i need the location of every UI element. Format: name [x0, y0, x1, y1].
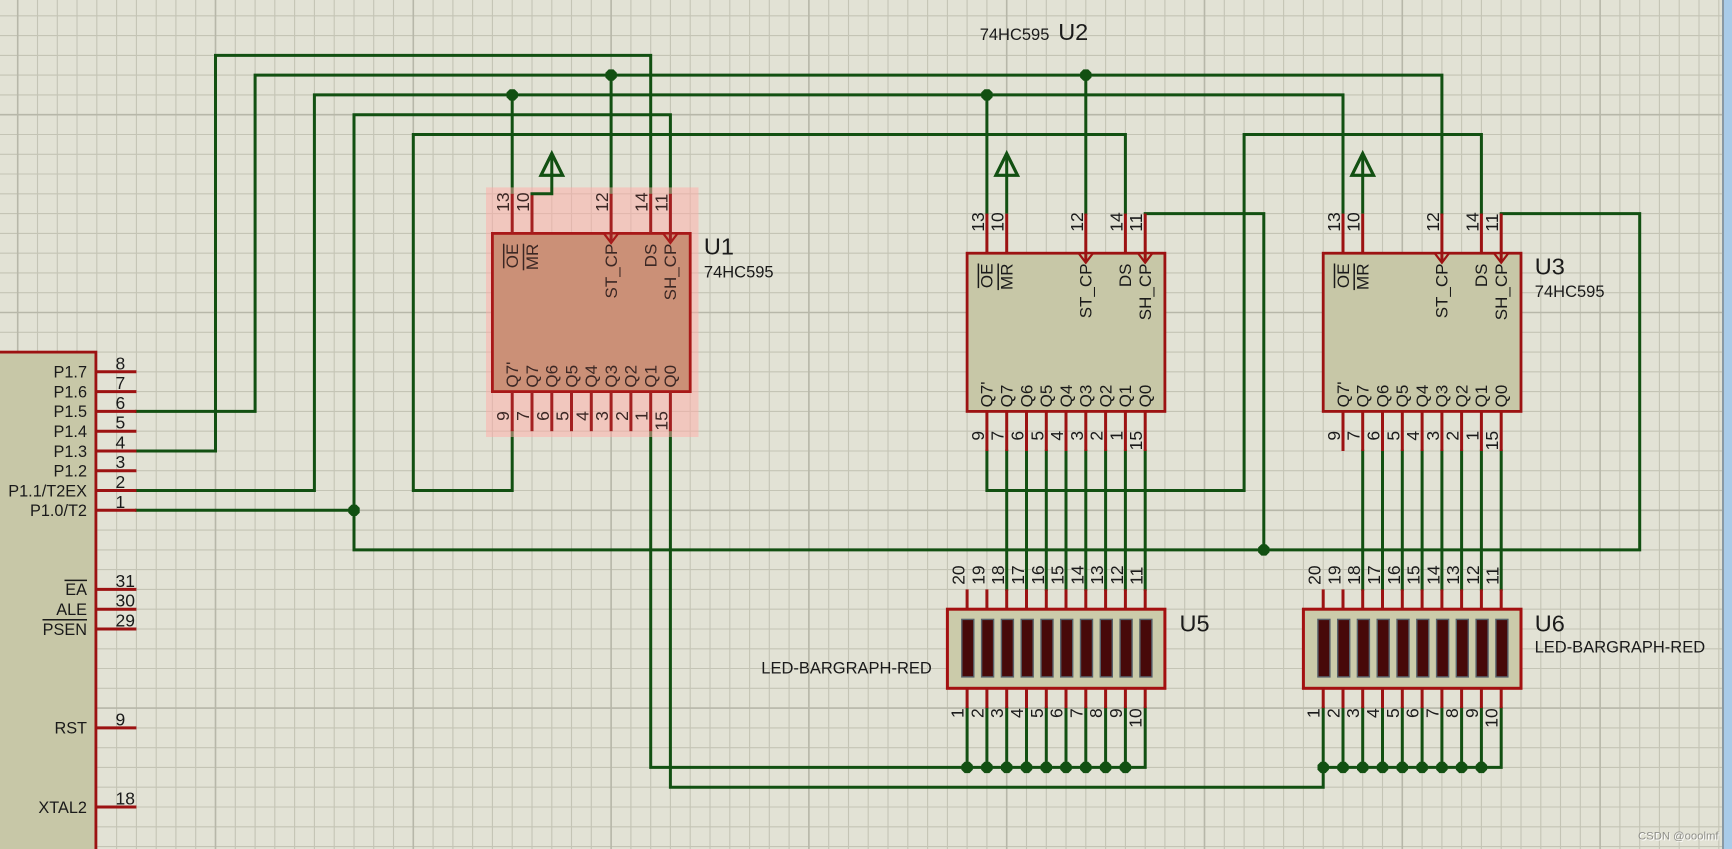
- U1 OE overbar: [503, 244, 505, 269]
- U6 LED segment 9: [1476, 619, 1488, 677]
- U2 clock notch SH_CP: [1138, 253, 1152, 263]
- svg-text:11: 11: [1126, 214, 1146, 232]
- svg-text:2: 2: [1443, 431, 1463, 441]
- svg-text:Q4: Q4: [1057, 385, 1076, 408]
- U1 clock notch ST_CP: [604, 233, 618, 243]
- U6 pin 8 stub (bottom): [1460, 688, 1463, 708]
- highlight overlay U1: [486, 187, 699, 437]
- window edge strip: [1722, 0, 1724, 849]
- wire branch SH_CP to U2 pin 11: [1145, 214, 1264, 550]
- svg-text:SH_CP: SH_CP: [661, 244, 680, 301]
- svg-text:1: 1: [116, 492, 126, 512]
- svg-text:14: 14: [632, 192, 652, 212]
- U6 pin 5 stub (bottom): [1401, 688, 1404, 708]
- U6 LED segment 4: [1377, 619, 1389, 677]
- svg-text:2: 2: [116, 472, 126, 492]
- svg-text:1: 1: [948, 708, 968, 718]
- U6 pin 16 stub (top): [1401, 589, 1404, 609]
- U6 pin 14 stub (top): [1440, 589, 1443, 609]
- U3 pin 7 stub: [1361, 411, 1364, 451]
- wire net P1.1 OE bus (to U3 pin 13): [136, 95, 1343, 491]
- svg-text:13: 13: [1324, 212, 1344, 231]
- junction U5 pin 4 bus: [1021, 762, 1032, 773]
- svg-text:MR: MR: [998, 264, 1017, 290]
- junction U6 pin 1 bus: [1318, 762, 1329, 773]
- U3 pin 15 stub: [1500, 411, 1503, 451]
- svg-text:11: 11: [1483, 567, 1503, 585]
- junction U6 pin 9 bus: [1476, 762, 1487, 773]
- wire U2 Q1 to U5 pin 12: [1124, 451, 1127, 589]
- svg-text:12: 12: [592, 192, 612, 211]
- svg-text:Q6: Q6: [1017, 385, 1036, 408]
- wire U3 Q7 to U6 pin 18: [1361, 451, 1364, 589]
- U2 pin 12 stub: [1084, 214, 1087, 263]
- U5 pin 12 stub (top): [1124, 589, 1127, 609]
- svg-text:7: 7: [513, 411, 533, 421]
- wire branch ST_CP to U1 pin 12: [610, 75, 613, 194]
- U5 LED segment 10: [1140, 619, 1152, 677]
- svg-text:12: 12: [1463, 565, 1483, 584]
- svg-text:EA: EA: [65, 581, 87, 599]
- wire U6 pin 4 to bus: [1381, 708, 1384, 767]
- MCU pin 1 P1.0/T2 stub: [96, 509, 136, 512]
- U6 pin 3 stub (bottom): [1361, 688, 1364, 708]
- svg-text:8: 8: [1086, 708, 1106, 718]
- wire U6 pin 5 to bus: [1401, 708, 1404, 767]
- U6 pin 20 stub (top): [1322, 589, 1325, 609]
- svg-text:16: 16: [1384, 565, 1404, 584]
- U1 pin 7 stub: [531, 392, 534, 432]
- PSEN overline: [43, 619, 88, 621]
- U5 pin 3 stub (bottom): [1005, 688, 1008, 708]
- U6 LED segment 3: [1357, 619, 1369, 677]
- U1 clock notch SH_CP: [663, 233, 677, 243]
- U5 LED segment 6: [1061, 619, 1073, 677]
- svg-text:29: 29: [116, 611, 135, 631]
- LED-BARGRAPH-RED U6 body: [1303, 609, 1521, 688]
- junction ST_CP / U1 pin 12: [605, 69, 616, 80]
- svg-text:6: 6: [116, 393, 126, 413]
- svg-text:8: 8: [116, 353, 126, 373]
- wire U6 pin 1 to bus: [1322, 708, 1325, 767]
- svg-text:U3: U3: [1535, 254, 1565, 280]
- U1 power arrow (VCC): [550, 155, 553, 175]
- U5 pin 9 stub (bottom): [1124, 688, 1127, 708]
- U6 LED segment 5: [1397, 619, 1409, 677]
- svg-text:11: 11: [651, 194, 671, 212]
- wire U5 pin 9 to bus: [1124, 708, 1127, 767]
- wire U2 Q2 to U5 pin 13: [1104, 451, 1107, 589]
- svg-text:OE: OE: [1334, 264, 1353, 289]
- svg-text:10: 10: [513, 192, 533, 212]
- U5 LED segment 2: [982, 619, 994, 677]
- U5 pin 15 stub (top): [1065, 589, 1068, 609]
- svg-text:5: 5: [116, 413, 126, 433]
- wire U6 pin 8 to bus: [1460, 708, 1463, 767]
- U3 pin 3 stub: [1440, 411, 1443, 451]
- svg-text:MR: MR: [523, 244, 542, 270]
- wire U5 pin 1 to bus: [966, 708, 969, 767]
- svg-text:20: 20: [1305, 565, 1325, 585]
- svg-text:Q4: Q4: [1413, 385, 1432, 408]
- svg-text:9: 9: [493, 411, 513, 421]
- 74HC595 U2 body: [967, 253, 1165, 411]
- svg-text:U1: U1: [704, 234, 734, 260]
- wire U5 pin 6 to bus: [1065, 708, 1068, 767]
- svg-text:7: 7: [988, 431, 1008, 441]
- svg-text:18: 18: [1344, 565, 1364, 584]
- svg-text:P1.7: P1.7: [54, 364, 88, 382]
- svg-text:6: 6: [1364, 431, 1384, 441]
- U2 pin 1 stub: [1124, 411, 1127, 451]
- svg-text:ST_CP: ST_CP: [602, 244, 621, 299]
- svg-text:13: 13: [968, 212, 988, 231]
- wire U5 pin 5 to bus: [1045, 708, 1048, 767]
- svg-text:10: 10: [988, 212, 1008, 232]
- svg-text:4: 4: [572, 411, 592, 421]
- svg-text:14: 14: [1462, 212, 1482, 232]
- svg-text:15: 15: [1482, 431, 1502, 450]
- MCU pin 6 P1.5 stub: [96, 410, 136, 413]
- svg-text:4: 4: [1047, 431, 1067, 441]
- wire U2 Q5 to U5 pin 16: [1045, 451, 1048, 589]
- 74HC595 U3 body: [1323, 253, 1521, 411]
- MCU pin 8 P1.7 stub: [96, 370, 136, 373]
- svg-text:Q2: Q2: [1452, 385, 1471, 408]
- U1 pin 5 stub: [570, 392, 573, 432]
- svg-text:Q0: Q0: [1492, 385, 1511, 408]
- wire U3 Q0 to U6 pin 11: [1500, 451, 1503, 589]
- U6 pin 19 stub (top): [1342, 589, 1345, 609]
- junction U6 pin 3 bus: [1357, 762, 1368, 773]
- svg-text:P1.5: P1.5: [54, 403, 88, 421]
- junction U6 pin 5 bus: [1397, 762, 1408, 773]
- U3 clock notch ST_CP: [1435, 253, 1449, 263]
- svg-text:1: 1: [632, 411, 652, 421]
- wire U3 Q2 to U6 pin 13: [1460, 451, 1463, 589]
- svg-text:MR: MR: [1354, 264, 1373, 290]
- svg-text:Q1: Q1: [1472, 385, 1491, 408]
- svg-text:2: 2: [1324, 708, 1344, 718]
- U3 pin 14 stub: [1480, 214, 1483, 254]
- U3 pin 10 stub: [1361, 214, 1364, 254]
- U5 LED segment 3: [1001, 619, 1013, 677]
- svg-text:Q0: Q0: [1136, 385, 1155, 408]
- svg-text:5: 5: [1383, 708, 1403, 718]
- svg-text:ALE: ALE: [56, 601, 87, 619]
- EA overline: [65, 579, 88, 581]
- U6 pin 1 stub (bottom): [1322, 688, 1325, 708]
- svg-text:4: 4: [116, 433, 126, 453]
- U2 pin 2 stub: [1104, 411, 1107, 451]
- U5 pin 19 stub (top): [985, 589, 988, 609]
- U6 pin 15 stub (top): [1421, 589, 1424, 609]
- U2 OE overbar: [977, 264, 979, 289]
- svg-text:P1.1/T2EX: P1.1/T2EX: [8, 482, 87, 500]
- wire chain U1 Q7' to U2 DS: [413, 135, 1125, 491]
- U2 pin 6 stub: [1025, 411, 1028, 451]
- wire branch OE to U2 pin 13: [985, 95, 988, 214]
- wire U6 pin 3 to bus: [1361, 708, 1364, 767]
- wire U5 pin 4 to bus: [1025, 708, 1028, 767]
- U1 power jog: [532, 175, 552, 194]
- svg-text:2: 2: [967, 708, 987, 718]
- wire U3 Q1 to U6 pin 12: [1480, 451, 1483, 589]
- wire branch ST_CP to U2 pin 12: [1084, 75, 1087, 214]
- svg-text:20: 20: [949, 565, 969, 585]
- svg-text:P1.2: P1.2: [54, 463, 88, 481]
- U6 pin 17 stub (top): [1381, 589, 1384, 609]
- svg-text:3: 3: [116, 452, 126, 472]
- U2 pin 4 stub: [1065, 411, 1068, 451]
- MCU pin 9 RST stub: [96, 726, 136, 729]
- wire U5 pin 2 to bus: [985, 708, 988, 767]
- svg-text:16: 16: [1028, 565, 1048, 584]
- U1 pin 9 stub: [511, 392, 514, 432]
- MCU pin 4 P1.3 stub: [96, 450, 136, 453]
- svg-text:3: 3: [1423, 431, 1443, 441]
- MCU pin 30 ALE stub: [96, 608, 136, 611]
- U1 pin 15 stub: [669, 392, 672, 432]
- U6 LED segment 7: [1437, 619, 1449, 677]
- U5 LED segment 8: [1100, 619, 1112, 677]
- svg-text:9: 9: [968, 431, 988, 441]
- U1 pin 14 stub: [649, 194, 652, 234]
- U2 pin 15 stub: [1144, 411, 1147, 451]
- svg-text:SH_CP: SH_CP: [1492, 264, 1511, 321]
- U1 pin 11 stub: [669, 194, 672, 243]
- svg-text:6: 6: [1047, 708, 1067, 718]
- U3 pin 12 stub: [1440, 214, 1443, 263]
- svg-text:Q3: Q3: [602, 365, 621, 388]
- wire U2 Q7 to U5 pin 18: [1005, 451, 1008, 589]
- MCU pin 5 P1.4 stub: [96, 430, 136, 433]
- U3 power arrow (VCC): [1361, 155, 1364, 214]
- wire U6 pin 7 to bus: [1440, 708, 1443, 767]
- U5 pin 14 stub (top): [1084, 589, 1087, 609]
- svg-text:31: 31: [116, 571, 135, 591]
- MCU body (8051, partial): [0, 352, 96, 849]
- svg-text:Q2: Q2: [1096, 385, 1115, 408]
- svg-text:15: 15: [1126, 431, 1146, 450]
- svg-text:OE: OE: [503, 244, 522, 269]
- svg-text:6: 6: [1403, 708, 1423, 718]
- svg-text:6: 6: [533, 411, 553, 421]
- MCU pin 2 P1.1/T2EX stub: [96, 489, 136, 492]
- U5 LED segment 4: [1021, 619, 1033, 677]
- svg-text:Q7: Q7: [523, 365, 542, 388]
- svg-text:P1.0/T2: P1.0/T2: [30, 502, 87, 520]
- junction U5 pin 7 bus: [1080, 762, 1091, 773]
- svg-text:5: 5: [1383, 431, 1403, 441]
- svg-text:LED-BARGRAPH-RED: LED-BARGRAPH-RED: [1535, 639, 1706, 657]
- junction U6 pin 4 bus: [1377, 762, 1388, 773]
- U1 pin 4 stub: [590, 392, 593, 432]
- svg-text:1: 1: [1106, 431, 1126, 441]
- U1 pin 2 stub: [629, 392, 632, 432]
- svg-text:SH_CP: SH_CP: [1136, 264, 1155, 321]
- U6 LED segment 10: [1496, 619, 1508, 677]
- junction U5 pin 2 bus: [981, 762, 992, 773]
- svg-text:2: 2: [1087, 431, 1107, 441]
- svg-text:13: 13: [1087, 565, 1107, 584]
- svg-text:7: 7: [1422, 708, 1442, 718]
- U3 pin 5 stub: [1401, 411, 1404, 451]
- U2 pin 13 stub: [985, 214, 988, 254]
- U6 pin 18 stub (top): [1361, 589, 1364, 609]
- junction U6 pin 8 bus: [1456, 762, 1467, 773]
- wire U2 Q6 to U5 pin 17: [1025, 451, 1028, 589]
- U3 pin 1 stub: [1480, 411, 1483, 451]
- svg-text:10: 10: [1126, 708, 1146, 728]
- svg-text:5: 5: [553, 411, 573, 421]
- junction U5 pin 1 bus: [961, 762, 972, 773]
- svg-text:XTAL2: XTAL2: [38, 799, 87, 817]
- wire U3 Q3 to U6 pin 14: [1440, 451, 1443, 589]
- svg-text:Q7': Q7': [1334, 381, 1353, 407]
- svg-text:19: 19: [1325, 565, 1345, 584]
- svg-text:OE: OE: [978, 264, 997, 289]
- MCU pin 18 XTAL2 stub: [96, 806, 136, 809]
- svg-text:Q5: Q5: [562, 365, 581, 388]
- svg-text:18: 18: [116, 789, 135, 809]
- svg-text:15: 15: [1404, 565, 1424, 584]
- U2 clock notch ST_CP: [1079, 253, 1093, 263]
- U6 pin 10 stub (bottom): [1500, 688, 1503, 708]
- U2 power arrow (VCC): [1005, 155, 1008, 214]
- U3 pin 2 stub: [1460, 411, 1463, 451]
- U3 OE overbar: [1334, 264, 1336, 289]
- MCU pin 29 PSEN stub: [96, 628, 136, 631]
- svg-text:4: 4: [1007, 708, 1027, 718]
- junction U5 pin 3 bus: [1001, 762, 1012, 773]
- svg-text:1: 1: [1304, 708, 1324, 718]
- U3 pin 4 stub: [1421, 411, 1424, 451]
- svg-text:19: 19: [968, 565, 988, 584]
- junction U6 pin 7 bus: [1436, 762, 1447, 773]
- junction OE / U2 pin 13: [981, 89, 992, 100]
- svg-text:10: 10: [1344, 212, 1364, 232]
- MCU pin 3 P1.2 stub: [96, 469, 136, 472]
- svg-text:4: 4: [1403, 431, 1423, 441]
- U5 pin 20 stub (top): [966, 589, 969, 609]
- svg-text:DS: DS: [1472, 264, 1491, 288]
- U5 pin 2 stub (bottom): [985, 688, 988, 708]
- svg-text:3: 3: [1343, 708, 1363, 718]
- wire net P1.3 to U1 DS (pin 14): [136, 55, 650, 451]
- svg-text:9: 9: [1106, 708, 1126, 718]
- svg-text:18: 18: [988, 565, 1008, 584]
- wire U3 Q5 to U6 pin 16: [1401, 451, 1404, 589]
- wire U2 Q3 to U5 pin 14: [1084, 451, 1087, 589]
- svg-text:P1.4: P1.4: [54, 423, 88, 441]
- MCU pin 7 P1.6 stub: [96, 390, 136, 393]
- U5 LED segment 7: [1081, 619, 1093, 677]
- U1 MR overbar: [523, 244, 525, 271]
- wire U1 Q1 to U5 cathode bus: [651, 431, 1145, 767]
- svg-text:Q1: Q1: [642, 365, 661, 388]
- U1 pin 13 stub: [511, 194, 514, 234]
- U5 pin 1 stub (bottom): [966, 688, 969, 708]
- svg-text:Q5: Q5: [1037, 385, 1056, 408]
- svg-text:74HC595: 74HC595: [1535, 283, 1605, 301]
- U2 pin 11 stub: [1144, 214, 1147, 263]
- U6 LED segment 1: [1318, 619, 1330, 677]
- svg-text:2: 2: [612, 411, 632, 421]
- svg-text:U2: U2: [1058, 19, 1088, 45]
- svg-text:74HC595: 74HC595: [704, 263, 774, 281]
- svg-text:Q3: Q3: [1433, 385, 1452, 408]
- svg-text:6: 6: [1008, 431, 1028, 441]
- LED-BARGRAPH-RED U5 body: [947, 609, 1165, 688]
- svg-text:P1.3: P1.3: [54, 443, 88, 461]
- U5 pin 5 stub (bottom): [1045, 688, 1048, 708]
- svg-text:7: 7: [1066, 708, 1086, 718]
- svg-text:3: 3: [987, 708, 1007, 718]
- svg-text:U6: U6: [1535, 611, 1565, 637]
- junction U6 pin 6 bus: [1416, 762, 1427, 773]
- U3 pin 6 stub: [1381, 411, 1384, 451]
- svg-text:13: 13: [1443, 565, 1463, 584]
- U5 pin 16 stub (top): [1045, 589, 1048, 609]
- U3 pin 9 stub: [1342, 411, 1345, 451]
- wire net P1.5 ST_CP bus (to U3 pin 12): [136, 75, 1442, 411]
- svg-text:30: 30: [116, 591, 136, 611]
- junction ST_CP / U2 pin 12: [1080, 69, 1091, 80]
- svg-text:Q2: Q2: [622, 365, 641, 388]
- U1 pin 3 stub: [610, 392, 613, 432]
- svg-text:LED-BARGRAPH-RED: LED-BARGRAPH-RED: [761, 660, 932, 678]
- U5 pin 7 stub (bottom): [1084, 688, 1087, 708]
- svg-text:9: 9: [116, 709, 126, 729]
- U2 pin 10 stub: [1005, 214, 1008, 254]
- U5 pin 18 stub (top): [1005, 589, 1008, 609]
- svg-text:DS: DS: [1116, 264, 1135, 288]
- svg-text:14: 14: [1423, 565, 1443, 585]
- svg-text:Q7: Q7: [1354, 385, 1373, 408]
- U5 pin 10 stub (bottom): [1144, 688, 1147, 708]
- junction U5 pin 6 bus: [1060, 762, 1071, 773]
- svg-text:9: 9: [1462, 708, 1482, 718]
- svg-text:74HC595: 74HC595: [980, 26, 1050, 44]
- wire net SH_CP lower run (to U3 pin 11): [354, 214, 1640, 550]
- svg-text:PSEN: PSEN: [43, 621, 87, 639]
- svg-text:15: 15: [1048, 565, 1068, 584]
- svg-text:Q4: Q4: [582, 365, 601, 388]
- U5 pin 6 stub (bottom): [1065, 688, 1068, 708]
- svg-text:Q7': Q7': [978, 381, 997, 407]
- U3 pin 13 stub: [1342, 214, 1345, 254]
- junction U5 pin 8 bus: [1100, 762, 1111, 773]
- svg-text:14: 14: [1067, 565, 1087, 585]
- svg-text:11: 11: [1127, 567, 1147, 585]
- svg-text:ST_CP: ST_CP: [1433, 264, 1452, 319]
- svg-text:4: 4: [1363, 708, 1383, 718]
- svg-text:DS: DS: [642, 244, 661, 268]
- wire net P1.0 SH_CP to U1 pin 11: [136, 115, 670, 511]
- svg-text:9: 9: [1324, 431, 1344, 441]
- U5 pin 11 stub (top): [1144, 589, 1147, 609]
- wire U6 pin 6 to bus: [1421, 708, 1424, 767]
- svg-text:Q7': Q7': [503, 362, 522, 388]
- U6 pin 12 stub (top): [1480, 589, 1483, 609]
- U2 pin 7 stub: [1005, 411, 1008, 451]
- wire U5 pin 8 to bus: [1104, 708, 1107, 767]
- U2 MR overbar: [997, 264, 999, 291]
- U1 pin 6 stub: [550, 392, 553, 432]
- svg-text:Q0: Q0: [661, 365, 680, 388]
- U1 pin 12 stub: [610, 194, 613, 243]
